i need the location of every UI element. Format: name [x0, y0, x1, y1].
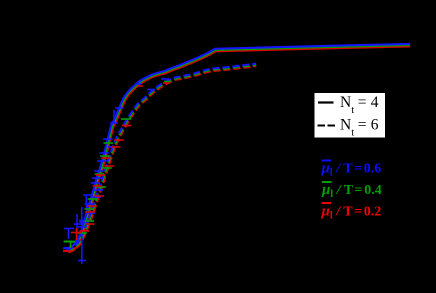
svg-text:μl/T=0.6: μl/T=0.6 [321, 161, 382, 179]
error bars [63, 79, 170, 264]
legend solid line sample [318, 101, 334, 103]
label mu/T=0.6 blue [321, 160, 382, 179]
dashed curve blue Nt=6 mu/T=0.6 [67, 64, 256, 250]
blue error bar caps [63, 79, 169, 264]
red error bar caps [63, 83, 170, 251]
legend dashed line sample [318, 125, 336, 127]
label mu/T=0.2 red [321, 202, 382, 222]
svg-text:μl/T=0.4: μl/T=0.4 [321, 182, 382, 200]
svg-text:μl/T=0.2: μl/T=0.2 [321, 204, 382, 222]
label mu/T=0.4 green [321, 181, 382, 200]
solid curve red Nt=4 mu/T=0.2 [63, 46, 410, 251]
dashed curve green Nt=6 mu/T=0.4 [68, 65, 257, 251]
dashed curve red Nt=6 mu/T=0.2 [69, 66, 257, 252]
solid curve blue Nt=4 mu/T=0.6 [64, 44, 411, 248]
green error bar caps [64, 82, 171, 249]
solid curve green Nt=4 mu/T=0.4 [64, 45, 410, 242]
legend box [314, 93, 386, 139]
